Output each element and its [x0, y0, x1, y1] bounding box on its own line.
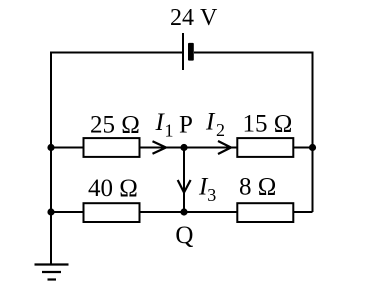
wire: top branch, left rail to 25-ohm resistor: [51, 147, 84, 149]
svg-text:40 Ω: 40 Ω: [88, 175, 138, 202]
svg-text:Q: Q: [175, 222, 193, 249]
svg-text:P: P: [179, 112, 193, 139]
current arrow I3 (arrowhead pointing down): [178, 180, 191, 193]
svg-text:2: 2: [216, 120, 225, 140]
junction dot: right rail / top branch: [309, 144, 316, 151]
junction dot: left rail / top branch: [47, 144, 54, 151]
wire: top rail left segment (left corner to battery): [51, 52, 183, 54]
battery V1 24 V: short thick negative plate: [188, 43, 194, 61]
wire: node Q to 8-ohm resistor: [184, 211, 237, 213]
wire: node P to 15-ohm resistor: [184, 147, 237, 149]
wire: top rail right segment (battery to right corner): [194, 52, 314, 54]
svg-text:25 Ω: 25 Ω: [90, 112, 140, 139]
wire: 8-ohm resistor to right rail: [293, 211, 312, 213]
wire: bottom branch, left rail to 40-ohm resistor: [51, 211, 84, 213]
svg-text:1: 1: [165, 121, 174, 141]
wire: 15-ohm resistor to right rail: [293, 147, 312, 149]
svg-text:15 Ω: 15 Ω: [243, 111, 293, 138]
battery V1 24 V: long positive plate: [182, 33, 184, 70]
resistor R3 40 ohm (body): [84, 203, 140, 222]
node Q junction dot: [180, 208, 187, 215]
current arrow I2 (arrowhead on wire toward 15 ohm): [218, 141, 231, 154]
junction dot: left rail / bottom branch: [47, 208, 54, 215]
wire: middle vertical from P down to Q: [183, 148, 185, 213]
wire: left vertical rail: [50, 52, 52, 265]
svg-text:3: 3: [207, 185, 216, 205]
svg-text:24 V: 24 V: [170, 5, 218, 31]
ground symbol: [35, 265, 69, 280]
resistor R4 8 ohm (body): [237, 203, 293, 222]
wire: 40-ohm resistor to node Q: [140, 211, 185, 213]
resistor R1 25 ohm (body): [84, 138, 140, 157]
wire: right vertical rail: [312, 53, 314, 213]
svg-text:8 Ω: 8 Ω: [239, 174, 276, 201]
resistor R2 15 ohm (body): [237, 138, 293, 157]
node P junction dot: [180, 144, 187, 151]
wire: 25-ohm resistor to node P: [140, 147, 185, 149]
current arrow I1 (arrowhead on wire toward P): [153, 141, 167, 154]
